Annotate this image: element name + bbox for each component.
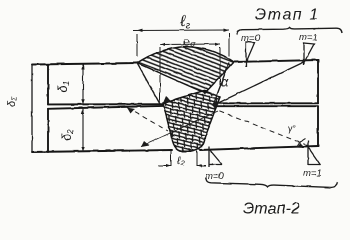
svg-text:m=0: m=0 bbox=[205, 171, 224, 182]
svg-text:Этап-2: Этап-2 bbox=[243, 201, 300, 218]
svg-text:γ°: γ° bbox=[288, 124, 297, 134]
svg-text:Этап 1: Этап 1 bbox=[255, 7, 320, 24]
svg-text:m=1: m=1 bbox=[303, 168, 322, 179]
svg-text:m=1: m=1 bbox=[299, 32, 318, 43]
svg-text:m=0: m=0 bbox=[241, 33, 260, 44]
svg-text:α: α bbox=[221, 75, 230, 90]
